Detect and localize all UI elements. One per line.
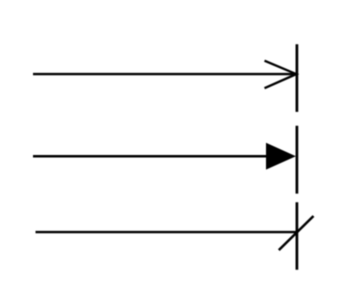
arrow 1 terminal bar — [296, 44, 299, 112]
arrow 2 shaft (middle) — [33, 155, 268, 157]
arrow 1 open arrowhead — [265, 61, 297, 88]
arrow 3 terminal bar — [296, 202, 299, 269]
arrow 3 slash tick — [279, 216, 314, 250]
arrow 3 shaft (bottom) — [36, 231, 298, 233]
arrow 1 shaft (top) — [33, 73, 297, 75]
arrow 2 filled arrowhead — [266, 143, 296, 170]
arrow 2 terminal bar — [296, 126, 299, 194]
